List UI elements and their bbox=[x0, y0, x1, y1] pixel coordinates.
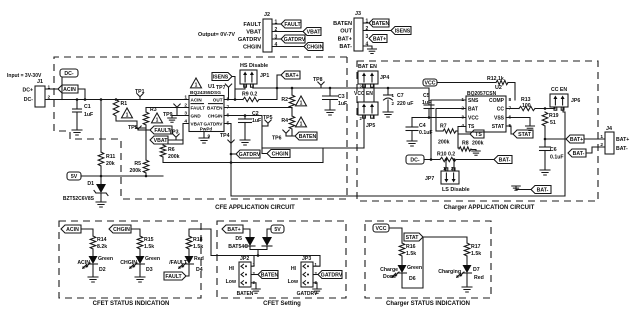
svg-text:STAT: STAT bbox=[518, 132, 532, 138]
svg-text:D7: D7 bbox=[473, 267, 480, 273]
U1 pin6 CHGIN wire bbox=[224, 116, 267, 154]
warning triangle (U1) bbox=[191, 78, 202, 88]
wire select rail bbox=[211, 255, 320, 257]
net flag BAT+ (J4) bbox=[566, 135, 584, 143]
wire R7 to TS node bbox=[456, 130, 458, 132]
net flag VCC (status) bbox=[373, 224, 389, 232]
svg-text:BAT+: BAT+ bbox=[373, 37, 386, 43]
connector J4 bbox=[605, 132, 614, 154]
ground (D3) bbox=[135, 277, 145, 282]
svg-text:Red: Red bbox=[474, 275, 484, 281]
svg-text:VBAT: VBAT bbox=[307, 30, 322, 36]
svg-text:TP6: TP6 bbox=[272, 136, 282, 142]
wire DC- to R10 bbox=[424, 159, 440, 161]
U1 pin2 FAULT wire bbox=[146, 108, 189, 113]
net flag BAT+ (setting) bbox=[222, 225, 243, 233]
wires JP7 pins to R10 bbox=[445, 160, 447, 172]
svg-text:ACIN: ACIN bbox=[63, 87, 76, 93]
svg-text:FAULT: FAULT bbox=[243, 22, 261, 28]
svg-text:C2: C2 bbox=[252, 111, 259, 117]
svg-text:Red: Red bbox=[194, 256, 204, 262]
connector J2 bbox=[263, 19, 272, 52]
svg-text:0.1uF: 0.1uF bbox=[550, 155, 564, 161]
ground (C3) bbox=[325, 110, 335, 115]
svg-text:FAULT: FAULT bbox=[165, 274, 182, 280]
svg-text:R17: R17 bbox=[471, 244, 481, 250]
svg-text:8.2k: 8.2k bbox=[97, 244, 107, 250]
wire R8 to ground bbox=[471, 150, 476, 152]
ground (BAT- return) bbox=[512, 186, 521, 190]
wires JP6 pins bbox=[554, 107, 556, 109]
svg-text:BAT-: BAT- bbox=[616, 146, 628, 152]
svg-text:C7: C7 bbox=[397, 93, 404, 99]
U1 pin8 OUT wire bbox=[224, 99, 243, 101]
svg-text:Charge: Charge bbox=[380, 267, 398, 273]
ground (U1 GND pin) bbox=[168, 118, 177, 122]
net flag ISENS (U1 OUT) bbox=[212, 73, 232, 81]
svg-text:Low: Low bbox=[226, 279, 237, 285]
svg-text:BAT+: BAT+ bbox=[227, 227, 240, 233]
ground (VSS) bbox=[526, 126, 535, 131]
svg-text:C3: C3 bbox=[338, 94, 345, 100]
svg-text:51: 51 bbox=[550, 120, 556, 126]
wire JP1 right pin to BAT+ bbox=[252, 84, 254, 88]
U2 pin6 VSS wire bbox=[506, 118, 530, 127]
wire JP3 pin1 bbox=[313, 256, 320, 267]
wire JP2 pin3 to ground bbox=[251, 283, 256, 289]
svg-text:1: 1 bbox=[275, 20, 278, 26]
wire JP3 pin3 to ground bbox=[313, 283, 317, 289]
svg-text:CC: CC bbox=[497, 107, 505, 113]
svg-text:J1: J1 bbox=[37, 79, 43, 85]
wire ground to BAT- flag bbox=[516, 186, 531, 190]
svg-text:CHGIN: CHGIN bbox=[208, 114, 223, 119]
net flag CHGIN (U1) bbox=[267, 150, 290, 158]
svg-text:BATEN: BATEN bbox=[207, 106, 223, 111]
ground (JP2) bbox=[252, 289, 261, 293]
net flag FAULT (status) bbox=[164, 272, 186, 280]
wire D2 to ground bbox=[92, 264, 94, 277]
svg-text:R11: R11 bbox=[106, 154, 115, 160]
net flag BATEN (JP2) bbox=[258, 271, 278, 279]
resistor R4 bbox=[289, 116, 295, 129]
svg-text:JP2: JP2 bbox=[240, 256, 249, 262]
U2 pin3 VCC wire bbox=[412, 117, 466, 119]
wire TP5 tap bbox=[262, 125, 268, 127]
net flag DC- (input) bbox=[60, 69, 78, 77]
U2 pin7 CC wire bbox=[506, 108, 519, 110]
svg-text:LS Disable: LS Disable bbox=[442, 187, 470, 193]
U1 pin5 GATDRV wire bbox=[224, 124, 231, 197]
svg-text:ISENS: ISENS bbox=[395, 29, 411, 35]
FAULT node wire bbox=[145, 125, 147, 160]
svg-text:VCC: VCC bbox=[425, 81, 436, 87]
svg-text:R4: R4 bbox=[281, 118, 288, 124]
svg-text:1: 1 bbox=[126, 112, 129, 118]
resistor R11 bbox=[98, 152, 104, 166]
wire J2 pin4 bbox=[272, 46, 304, 48]
U1 PwPd pin 9 ground bbox=[203, 132, 205, 139]
svg-text:9: 9 bbox=[208, 134, 211, 140]
ground (C4) bbox=[407, 141, 417, 146]
U1 pin7 BATEN wire bbox=[224, 107, 292, 109]
svg-text:J4: J4 bbox=[606, 126, 612, 132]
U2 pin1 SNS wire bbox=[431, 100, 466, 160]
capacitor C5 bbox=[428, 88, 430, 105]
capacitor C2 bbox=[244, 116, 246, 120]
svg-text:R3: R3 bbox=[150, 107, 157, 113]
svg-text:1uF: 1uF bbox=[252, 118, 261, 124]
wire R15 to D3 bbox=[139, 249, 141, 256]
svg-text:C5: C5 bbox=[423, 93, 430, 99]
svg-text:BAT-: BAT- bbox=[537, 188, 549, 194]
wire R6 bottom bus bbox=[163, 157, 323, 163]
svg-text:BAT-: BAT- bbox=[499, 158, 511, 164]
svg-text:CHGIN: CHGIN bbox=[272, 152, 289, 158]
svg-text:GATDRV: GATDRV bbox=[321, 273, 343, 279]
svg-text:CC EN: CC EN bbox=[551, 87, 567, 93]
svg-text:BATEN: BATEN bbox=[299, 134, 317, 140]
wire BAT+ to J4 bbox=[545, 138, 566, 140]
net flag 5V (setting) bbox=[271, 225, 284, 233]
capacitor C3 bbox=[329, 88, 331, 96]
svg-text:D6: D6 bbox=[409, 276, 416, 282]
U2 pin5 STAT wire bbox=[506, 126, 513, 134]
LED D7 bbox=[463, 265, 472, 273]
warning triangle (R3) bbox=[152, 113, 163, 123]
wire J3 pin4 to ground bbox=[363, 46, 372, 49]
wire R2-R4 bbox=[291, 108, 293, 116]
svg-text:STAT: STAT bbox=[492, 124, 504, 130]
svg-text:BAT-: BAT- bbox=[339, 44, 352, 50]
CFET status indication dashed boundary bbox=[59, 221, 201, 298]
svg-text:DC+: DC+ bbox=[22, 88, 33, 94]
wires JP4 pins to rail bbox=[363, 84, 365, 88]
svg-text:Output= 0V-7V: Output= 0V-7V bbox=[198, 32, 235, 38]
svg-text:VSS: VSS bbox=[494, 116, 505, 122]
net flag CHGIN (J2) bbox=[304, 43, 323, 51]
wire R9 to BAT+ riser bbox=[259, 75, 277, 100]
svg-text:Charger APPLICATION CIRCUIT: Charger APPLICATION CIRCUIT bbox=[444, 205, 535, 211]
svg-text:R15: R15 bbox=[144, 237, 154, 243]
net flag BAT+ (HS) bbox=[281, 71, 300, 79]
svg-text:R6: R6 bbox=[168, 147, 175, 153]
ground (D1) bbox=[96, 202, 106, 207]
svg-text:U1: U1 bbox=[208, 84, 215, 90]
svg-text:GATDRV: GATDRV bbox=[297, 291, 318, 297]
svg-text:R10 0.2: R10 0.2 bbox=[437, 152, 455, 158]
wire R19 to BAT+ node bbox=[544, 126, 546, 147]
net flag ISENS (J3) bbox=[391, 27, 411, 35]
svg-text:R8: R8 bbox=[462, 141, 469, 147]
svg-text:BAT: BAT bbox=[468, 107, 478, 113]
resistor R14 bbox=[90, 236, 96, 249]
wires JP5 pins to rail bbox=[363, 88, 365, 102]
svg-text:20k: 20k bbox=[106, 161, 115, 167]
wire D4 to FAULT flag bbox=[186, 264, 189, 276]
wire J3 pin2 bbox=[363, 30, 391, 32]
wire D3 to ground bbox=[139, 264, 141, 277]
svg-text:R18: R18 bbox=[193, 237, 203, 243]
svg-text:FAULT: FAULT bbox=[191, 106, 206, 111]
svg-text:BAT54C: BAT54C bbox=[228, 244, 248, 250]
wire R17 to D7 bbox=[466, 256, 468, 265]
resistor R15 bbox=[137, 236, 143, 249]
svg-text:4: 4 bbox=[366, 42, 369, 48]
svg-text:DC-: DC- bbox=[64, 71, 73, 77]
svg-text:BATEN: BATEN bbox=[333, 21, 352, 27]
resistor R16 bbox=[399, 243, 405, 256]
op-amp U1 BQ24355DSG bbox=[189, 96, 224, 132]
capacitor C6 bbox=[540, 146, 551, 148]
svg-text:C6: C6 bbox=[550, 147, 557, 153]
svg-text:1uF: 1uF bbox=[84, 112, 93, 118]
net flag ACIN (status) bbox=[61, 225, 81, 233]
svg-text:200k: 200k bbox=[438, 140, 450, 146]
wire BAT+ to D5 left bbox=[243, 229, 250, 237]
svg-text:220 uF: 220 uF bbox=[397, 101, 413, 107]
svg-text:R7: R7 bbox=[440, 124, 447, 130]
svg-text:JP6: JP6 bbox=[571, 98, 580, 104]
net flag GATDRV (J2) bbox=[281, 35, 305, 43]
svg-text:GATDRV: GATDRV bbox=[239, 152, 261, 158]
wire STAT to R17 bbox=[423, 237, 467, 243]
jumper JP7 LS Disable bbox=[441, 171, 459, 184]
wire BAT- flag to J4 pin2 bbox=[586, 147, 605, 153]
wire ISENS to OUT bbox=[232, 77, 235, 100]
svg-text:R19: R19 bbox=[549, 113, 559, 119]
wire 5V rail bbox=[81, 175, 163, 177]
resistor R3 bbox=[143, 112, 149, 125]
net flag DC- (charger) bbox=[406, 155, 424, 164]
U1 pin4 VBAT wire bbox=[163, 124, 189, 145]
net flag BATEN (J3) bbox=[369, 19, 389, 27]
svg-text:GND: GND bbox=[191, 114, 202, 119]
svg-text:1.5k: 1.5k bbox=[144, 244, 154, 250]
svg-text:CHGIN: CHGIN bbox=[307, 45, 324, 51]
svg-text:R16: R16 bbox=[406, 244, 416, 250]
svg-text:JP7: JP7 bbox=[425, 176, 434, 182]
svg-text:5V: 5V bbox=[71, 174, 78, 180]
svg-text:/FAULT: /FAULT bbox=[169, 260, 188, 266]
ground (C1) bbox=[72, 130, 82, 135]
ground (D7) bbox=[462, 287, 472, 292]
svg-text:FAULT: FAULT bbox=[284, 22, 301, 28]
net flag BAT- (gnd) bbox=[531, 186, 551, 194]
svg-text:ACIN: ACIN bbox=[191, 98, 203, 103]
svg-text:CHGIN: CHGIN bbox=[243, 45, 261, 51]
wire DC- flag to J1 pin2 bbox=[61, 77, 63, 100]
wire VCC to R16 bbox=[389, 228, 402, 243]
wire bottom bus bbox=[231, 195, 565, 197]
svg-text:1: 1 bbox=[600, 134, 603, 140]
wire pull-up rail to R18 bbox=[189, 229, 211, 256]
wire CHGIN-JP5 link bbox=[262, 147, 364, 149]
capacitor C1 bbox=[76, 100, 78, 110]
CFET setting dashed boundary bbox=[217, 221, 346, 298]
svg-text:J3: J3 bbox=[355, 11, 361, 17]
svg-text:TP4: TP4 bbox=[220, 133, 230, 139]
svg-text:HI: HI bbox=[291, 266, 297, 272]
svg-text:BZT52C6V8S: BZT52C6V8S bbox=[63, 196, 95, 202]
net flag 5V bbox=[67, 172, 81, 180]
svg-text:2: 2 bbox=[275, 27, 278, 33]
svg-text:DC-: DC- bbox=[410, 158, 419, 164]
svg-text:200k: 200k bbox=[472, 141, 484, 147]
svg-text:SNS: SNS bbox=[468, 98, 479, 104]
net flag GATDRV (U1) bbox=[236, 150, 260, 158]
svg-text:ACIN: ACIN bbox=[77, 260, 90, 266]
net flag BAT- (R10) bbox=[494, 156, 512, 164]
svg-text:OUT: OUT bbox=[213, 98, 223, 103]
svg-text:R5: R5 bbox=[134, 161, 141, 167]
U2 pin4 TS wire bbox=[458, 127, 466, 149]
wire JP3 pin2 to GATDRV flag bbox=[313, 274, 318, 276]
wire JP2 pin1 bbox=[251, 256, 254, 267]
net flag BAT+ (J3) bbox=[369, 35, 387, 43]
svg-text:1.5k: 1.5k bbox=[471, 251, 481, 257]
svg-text:BAT+: BAT+ bbox=[570, 137, 583, 143]
svg-text:4: 4 bbox=[275, 42, 278, 48]
net flag GATDRV (JP3) bbox=[318, 271, 342, 279]
wire JP5 bottom to VCC link bbox=[363, 115, 365, 148]
net flag CHGIN (status) bbox=[109, 225, 131, 233]
svg-text:BAT+: BAT+ bbox=[285, 73, 298, 79]
svg-text:3: 3 bbox=[275, 35, 278, 41]
net flag STAT (status) bbox=[404, 233, 423, 241]
svg-text:1.5k: 1.5k bbox=[406, 251, 416, 257]
wire J2 pin3 bbox=[272, 38, 281, 40]
wire R13 to R19/JP6 bbox=[535, 108, 555, 110]
Charger application circuit dashed boundary bbox=[357, 61, 598, 201]
svg-text:STAT: STAT bbox=[406, 235, 420, 241]
svg-text:Done: Done bbox=[383, 274, 396, 280]
svg-text:TS: TS bbox=[468, 124, 475, 130]
U2 pin2 BAT wire bbox=[436, 109, 466, 132]
resistor R17 bbox=[464, 243, 470, 256]
svg-text:BAT+: BAT+ bbox=[616, 137, 629, 143]
resistor R6 bbox=[160, 145, 166, 157]
wire R18 to D4 bbox=[188, 249, 190, 256]
wire TS flag bbox=[458, 133, 470, 135]
wires D5 common cathode bbox=[250, 246, 267, 250]
svg-text:R2: R2 bbox=[281, 97, 288, 103]
wire R5 to 5V rail bbox=[145, 173, 147, 176]
svg-text:VBAT: VBAT bbox=[154, 138, 169, 144]
svg-text:D4: D4 bbox=[196, 267, 203, 273]
svg-text:1: 1 bbox=[300, 121, 303, 127]
svg-text:JP4: JP4 bbox=[380, 75, 389, 81]
connector J1 bbox=[35, 86, 45, 107]
svg-text:200k: 200k bbox=[129, 168, 141, 174]
svg-text:3: 3 bbox=[366, 34, 369, 40]
svg-text:C4: C4 bbox=[419, 123, 426, 129]
wire ACIN to input rail bbox=[78, 89, 85, 100]
wire VBAT flag tail bbox=[168, 139, 183, 141]
net flag FAULT (J2) bbox=[281, 20, 301, 28]
svg-text:1: 1 bbox=[300, 100, 303, 106]
svg-text:1.5k: 1.5k bbox=[193, 244, 203, 250]
ground (C6) bbox=[540, 170, 550, 175]
svg-text:200k: 200k bbox=[168, 154, 180, 160]
wire to FAULT flag bbox=[146, 129, 150, 131]
svg-text:CFET Setting: CFET Setting bbox=[263, 301, 301, 307]
capacitor C4 bbox=[411, 118, 413, 128]
warning triangle (R1) bbox=[122, 108, 133, 118]
svg-text:Charging: Charging bbox=[438, 269, 461, 275]
svg-text:VCC: VCC bbox=[376, 226, 387, 232]
svg-text:1: 1 bbox=[156, 117, 159, 123]
wire R12 to COMP bbox=[508, 83, 515, 101]
dual diode D5 BAT54C bbox=[245, 237, 255, 246]
svg-text:ISENS: ISENS bbox=[213, 75, 229, 81]
svg-text:JP5: JP5 bbox=[366, 123, 375, 129]
wire J1 pin2 / input rail bbox=[45, 99, 189, 101]
net flag STAT (U2) bbox=[513, 130, 533, 138]
svg-text:1: 1 bbox=[366, 19, 369, 25]
net flag BATEN (U1) bbox=[295, 132, 317, 140]
svg-text:D2: D2 bbox=[99, 267, 106, 273]
svg-text:8: 8 bbox=[509, 97, 512, 103]
resistor R19 51 bbox=[542, 112, 548, 126]
resistor R2 bbox=[289, 95, 295, 108]
warning triangle (R4) bbox=[296, 117, 307, 127]
net flag FAULT (U1) bbox=[150, 126, 172, 134]
svg-text:OUT: OUT bbox=[340, 29, 352, 35]
svg-text:DC-: DC- bbox=[24, 97, 33, 103]
svg-text:BAT+: BAT+ bbox=[338, 37, 353, 43]
zener diode D1 bbox=[100, 176, 102, 184]
ground (JP3) bbox=[313, 289, 322, 293]
wire J2 pin1 bbox=[272, 23, 281, 25]
svg-text:BAT-: BAT- bbox=[573, 151, 585, 157]
ground (U1 pad) bbox=[199, 138, 209, 143]
svg-text:Green: Green bbox=[145, 256, 160, 262]
LED D4 bbox=[185, 256, 194, 264]
svg-text:TP9: TP9 bbox=[163, 112, 173, 118]
svg-text:GATDRV: GATDRV bbox=[238, 37, 261, 43]
ground (C7) bbox=[383, 112, 393, 117]
resistor R1 bbox=[113, 100, 119, 117]
svg-text:TP7: TP7 bbox=[216, 85, 226, 91]
svg-text:COMP: COMP bbox=[489, 98, 505, 104]
wire GATDRV flag tap bbox=[231, 153, 236, 155]
svg-text:1: 1 bbox=[195, 82, 198, 88]
svg-text:Green: Green bbox=[407, 265, 422, 271]
net flag ACIN (input) bbox=[58, 85, 78, 93]
net flag BAT- (J4) bbox=[568, 149, 586, 157]
wire J1 pin1 DC+ bbox=[45, 88, 58, 90]
wire R6 bus riser bbox=[322, 148, 324, 163]
warning triangle (R2) bbox=[296, 96, 307, 106]
svg-text:1uF: 1uF bbox=[422, 100, 431, 106]
svg-text:CHGIN: CHGIN bbox=[120, 260, 137, 266]
wire BAT+ flag to J4 pin1 bbox=[584, 138, 605, 140]
svg-text:R1: R1 bbox=[121, 101, 128, 107]
net flag VBAT (U1) bbox=[150, 136, 168, 144]
wire ACIN to R14 bbox=[81, 229, 93, 236]
capacitor C7 220uF bbox=[387, 88, 389, 95]
svg-text:PwPd: PwPd bbox=[200, 127, 213, 132]
svg-text:BATEN: BATEN bbox=[261, 273, 279, 279]
resistor R18 bbox=[186, 236, 192, 249]
wire TP2 to FAULT node bbox=[138, 129, 146, 131]
net flag VBAT (J2) bbox=[303, 28, 321, 36]
svg-text:VBAT: VBAT bbox=[246, 30, 261, 36]
svg-text:HI: HI bbox=[229, 266, 235, 272]
svg-text:Green: Green bbox=[98, 256, 113, 262]
wire J3 pin1 bbox=[363, 22, 369, 24]
